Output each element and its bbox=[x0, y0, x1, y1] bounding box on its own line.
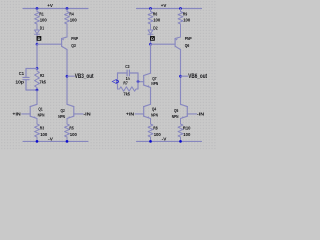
resistor R9 bbox=[178, 9, 183, 38]
wire VB6_out stub bbox=[181, 75, 188, 77]
resistor R6 bbox=[148, 9, 153, 30]
svg-text:D1: D1 bbox=[40, 25, 45, 30]
net flag D left bbox=[37, 36, 42, 41]
svg-text:VB6_out: VB6_out bbox=[188, 73, 207, 80]
wire collector Q3 to out bbox=[66, 50, 68, 105]
svg-text:C3: C3 bbox=[125, 64, 130, 69]
svg-text:100: 100 bbox=[183, 132, 191, 137]
wire C3R7 top edge left bbox=[118, 72, 128, 74]
svg-text:100: 100 bbox=[154, 132, 162, 137]
svg-text:Q6: Q6 bbox=[185, 43, 190, 48]
net flag D right bbox=[150, 36, 155, 41]
wire VB3_out stub bbox=[67, 75, 74, 77]
svg-text:100: 100 bbox=[70, 132, 78, 137]
wire collector Q6 to out bbox=[180, 50, 182, 105]
node junction RC top bbox=[36, 67, 39, 70]
node junction railB-right right bbox=[179, 140, 182, 143]
transistor Q6 PNP bbox=[175, 37, 180, 39]
node junction C3R7 right bbox=[137, 80, 140, 83]
node junction C3R7 left bbox=[116, 80, 119, 83]
resistor R2 bbox=[35, 69, 40, 91]
wire -V rail right bbox=[137, 140, 202, 142]
node junction VB3_out bbox=[66, 75, 69, 78]
node junction railB-right left bbox=[66, 140, 69, 143]
svg-text:R8: R8 bbox=[153, 126, 158, 131]
diode D1 bbox=[35, 30, 40, 34]
wire RC box left edge upper bbox=[25, 69, 27, 78]
resistor R1 bbox=[35, 9, 40, 30]
node junction rail-left right bbox=[149, 7, 152, 10]
diode D2 bbox=[148, 30, 153, 34]
wire +V rail right bbox=[137, 8, 202, 10]
svg-text:D2: D2 bbox=[153, 25, 158, 30]
node junction D left bbox=[36, 43, 39, 46]
capacitor C1 bbox=[23, 76, 29, 78]
svg-text:R10: R10 bbox=[183, 126, 191, 131]
svg-text:Q3: Q3 bbox=[71, 43, 76, 48]
node junction RC bottom bbox=[36, 89, 39, 92]
svg-text:+V: +V bbox=[47, 3, 54, 8]
node junction railB-left left bbox=[36, 140, 39, 143]
resistor R8 bbox=[148, 119, 153, 142]
svg-text:Q5: Q5 bbox=[174, 108, 179, 113]
transistor Q2 NPN bbox=[67, 104, 74, 106]
svg-text:+V: +V bbox=[161, 3, 168, 8]
svg-text:PNP: PNP bbox=[71, 36, 78, 41]
svg-text:Q2: Q2 bbox=[61, 108, 66, 113]
svg-text:R1: R1 bbox=[39, 12, 44, 17]
wire -V rail left bbox=[23, 140, 88, 142]
svg-text:Q1: Q1 bbox=[38, 107, 43, 112]
node junction VB6_out bbox=[179, 75, 182, 78]
svg-text:NPN: NPN bbox=[172, 114, 179, 119]
wire RC box to Q1 collector bbox=[36, 90, 38, 104]
svg-text:+IN: +IN bbox=[12, 111, 21, 116]
wire base Q2 -IN bbox=[74, 113, 83, 115]
svg-text:100: 100 bbox=[70, 17, 78, 22]
svg-text:D: D bbox=[38, 37, 41, 41]
wire RC box top edge bbox=[26, 68, 37, 70]
wire RC box left edge lower bbox=[25, 80, 27, 90]
svg-text:NPN: NPN bbox=[38, 113, 45, 118]
resistor R3 bbox=[35, 119, 40, 142]
node junction rail-right right bbox=[179, 7, 182, 10]
transistor Q4 NPN bbox=[144, 104, 151, 106]
port input flag bbox=[112, 79, 116, 83]
wire base Q3 bbox=[37, 43, 62, 45]
svg-text:R2: R2 bbox=[40, 73, 45, 78]
wire diode to node right bbox=[150, 34, 152, 44]
resistor R4 bbox=[65, 9, 70, 38]
wire C3R7 top edge right bbox=[129, 72, 138, 74]
resistor R10 bbox=[178, 119, 183, 142]
node junction D right bbox=[149, 43, 152, 46]
svg-text:R3: R3 bbox=[40, 126, 45, 131]
wire base Q5 -IN bbox=[187, 113, 196, 115]
svg-text:7k5: 7k5 bbox=[39, 79, 46, 84]
svg-text:VB3_out: VB3_out bbox=[75, 73, 94, 80]
svg-text:NPN: NPN bbox=[151, 113, 158, 118]
wire Q7 emitter to Q4 bbox=[150, 87, 152, 104]
svg-text:-IN: -IN bbox=[83, 111, 91, 116]
wire D2 node to Q7 collector bbox=[150, 44, 152, 73]
wire D node to RC box bbox=[36, 44, 38, 68]
resistor R5 bbox=[65, 119, 70, 142]
capacitor C3 bbox=[126, 70, 128, 76]
wire RC box bottom edge bbox=[26, 89, 37, 91]
svg-text:100: 100 bbox=[40, 132, 48, 137]
wire base Q4 +IN bbox=[135, 113, 143, 115]
svg-text:R7: R7 bbox=[123, 81, 128, 86]
wire Q7 base bbox=[138, 81, 144, 83]
svg-text:R9: R9 bbox=[183, 12, 188, 17]
svg-text:100: 100 bbox=[153, 17, 161, 22]
svg-text:R4: R4 bbox=[69, 12, 74, 17]
svg-text:Q4: Q4 bbox=[152, 107, 157, 112]
wire base Q6 bbox=[151, 43, 176, 45]
svg-text:100: 100 bbox=[40, 17, 48, 22]
wire base Q1 +IN bbox=[22, 113, 30, 115]
svg-text:NPN: NPN bbox=[58, 114, 65, 119]
svg-text:D: D bbox=[151, 37, 154, 41]
transistor Q3 PNP bbox=[62, 37, 67, 39]
transistor Q7 NPN bbox=[144, 73, 151, 75]
svg-text:-IN: -IN bbox=[197, 111, 205, 116]
svg-text:R6: R6 bbox=[153, 12, 158, 17]
svg-text:7k5: 7k5 bbox=[123, 92, 130, 97]
node junction rail-left left bbox=[36, 7, 39, 10]
transistor Q1 NPN bbox=[30, 104, 37, 106]
transistor Q5 NPN bbox=[181, 104, 188, 106]
svg-text:C1: C1 bbox=[19, 71, 25, 76]
svg-text:NPN: NPN bbox=[151, 81, 158, 86]
node junction railB-left right bbox=[149, 140, 152, 143]
wire +V rail left bbox=[23, 8, 88, 10]
svg-text:100: 100 bbox=[183, 17, 191, 22]
svg-text:+IN: +IN bbox=[126, 111, 135, 116]
wire C3R7 left edge bbox=[117, 73, 119, 89]
wire diode to node left bbox=[36, 34, 38, 44]
svg-text:10p: 10p bbox=[15, 79, 24, 84]
svg-text:R5: R5 bbox=[69, 126, 74, 131]
wire C3R7 right edge bbox=[137, 73, 139, 89]
resistor R7 bbox=[118, 87, 139, 91]
svg-text:PNP: PNP bbox=[185, 36, 192, 41]
node junction rail-right left bbox=[66, 7, 69, 10]
